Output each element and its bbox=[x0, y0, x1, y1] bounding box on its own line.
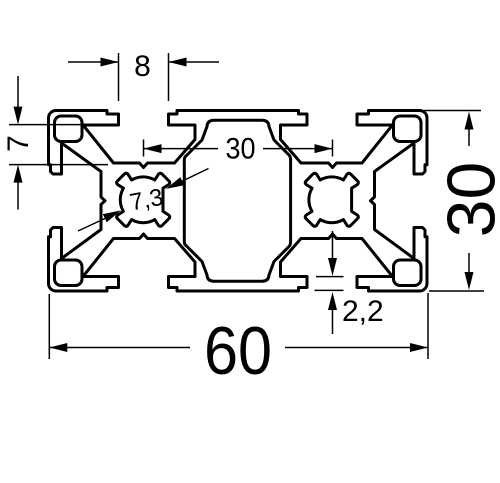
dimension 7,3 leader lines bbox=[78, 169, 209, 232]
dimension 60 extension lines bbox=[49, 293, 428, 359]
corner cavity top-left bbox=[55, 116, 83, 142]
dimension 7 arrow lines bbox=[17, 76, 19, 210]
right cross core cavity bbox=[305, 173, 358, 226]
svg-text:7: 7 bbox=[2, 135, 35, 152]
dimension 30 middle arrowheads bbox=[144, 144, 333, 153]
svg-text:8: 8 bbox=[134, 50, 151, 83]
dimension 30 right arrowheads bbox=[465, 112, 474, 291]
dimension 30 middle arrow lines bbox=[144, 148, 333, 150]
dimension 30 middle ticks bbox=[144, 140, 333, 157]
left cross core cavity bbox=[117, 173, 170, 226]
dimension 60 arrow lines bbox=[49, 347, 428, 349]
dimension 7,3 arrowheads bbox=[103, 177, 184, 222]
dimension 7 arrowheads bbox=[14, 107, 23, 183]
svg-text:2,2: 2,2 bbox=[342, 295, 384, 328]
dimension 60 arrowheads bbox=[49, 343, 428, 352]
central cavity bbox=[184, 120, 290, 281]
corner cavity top-right bbox=[394, 116, 422, 142]
dimension 8 extension lines bbox=[119, 53, 169, 101]
dimension 30 right arrow lines bbox=[468, 129, 470, 274]
svg-text:60: 60 bbox=[204, 312, 272, 389]
dimension 2,2 short extension lines bbox=[315, 277, 344, 291]
dimension 8 arrowheads bbox=[101, 58, 187, 67]
dimension 7 extension lines bbox=[9, 125, 112, 165]
dimension 30 right extension lines bbox=[424, 111, 484, 292]
corner cavity bottom-right bbox=[394, 260, 422, 286]
corner cavity bottom-left bbox=[55, 260, 83, 286]
dimension 2,2 arrow lines bbox=[332, 231, 334, 334]
dimension 8 arrow lines bbox=[68, 61, 219, 63]
svg-text:30: 30 bbox=[225, 132, 255, 166]
profile outer contour with 6 T-slots bbox=[49, 111, 428, 292]
dimension 2,2 arrowheads bbox=[328, 258, 337, 310]
svg-text:30: 30 bbox=[434, 162, 500, 238]
